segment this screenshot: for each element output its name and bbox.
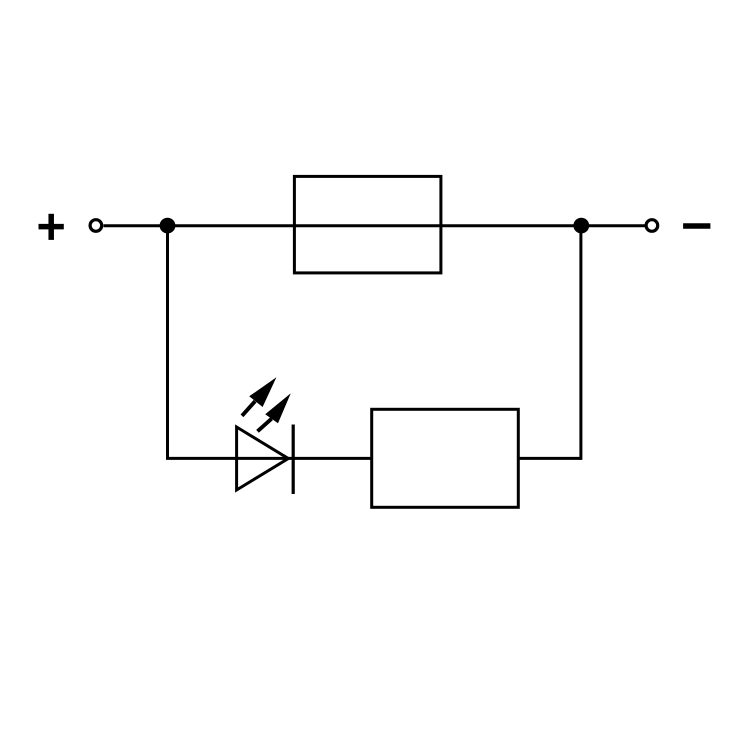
LED D1 cathode bar: [292, 425, 295, 495]
fuse F1 box: [294, 176, 441, 273]
electronics component box (series element): [372, 409, 519, 507]
wire: bottom right segment: [518, 457, 581, 460]
wire: bottom left segment through LED: [166, 457, 372, 460]
junction dot left (node A): [160, 218, 176, 234]
wire: left vertical drop: [166, 226, 169, 459]
junction dot right (node B): [573, 218, 589, 234]
LED D1 triangle (anode): [237, 427, 289, 490]
plus terminal label: [39, 214, 64, 240]
right terminal open circle: [646, 220, 658, 232]
wire: right vertical rise: [579, 226, 582, 460]
LED light arrow 2: [258, 393, 291, 431]
LED light arrow 1: [242, 377, 276, 416]
main horizontal wire (top): [104, 224, 646, 227]
left terminal open circle: [90, 220, 102, 232]
minus terminal label: [683, 223, 710, 229]
